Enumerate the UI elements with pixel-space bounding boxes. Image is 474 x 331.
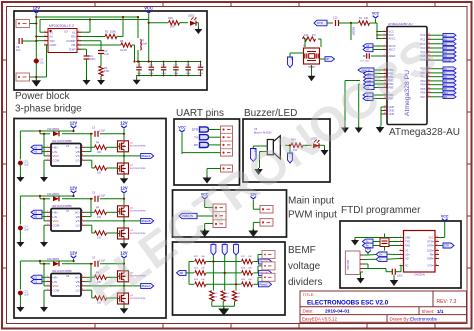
svg-text:10uF: 10uF xyxy=(24,294,30,297)
svg-text:FTDI programmer: FTDI programmer xyxy=(341,205,421,216)
svg-text:10n: 10n xyxy=(16,48,21,52)
svg-text:Electronoobs: Electronoobs xyxy=(410,316,438,321)
svg-text:10K: 10K xyxy=(201,267,205,269)
svg-text:U1: U1 xyxy=(66,144,70,148)
svg-text:D-: D- xyxy=(379,259,382,261)
svg-text:NC: NC xyxy=(405,265,409,268)
svg-text:VCC: VCC xyxy=(365,246,372,250)
svg-text:Sheet:: Sheet: xyxy=(422,309,435,314)
svg-text:10K: 10K xyxy=(248,256,252,258)
svg-text:22uF: 22uF xyxy=(161,73,167,75)
svg-text:VCC: VCC xyxy=(389,33,395,37)
svg-text:10K: 10K xyxy=(364,17,369,20)
svg-text:VCC: VCC xyxy=(428,237,433,240)
svg-text:C10: C10 xyxy=(333,17,338,20)
svg-text:PD7: PD7 xyxy=(420,95,426,99)
svg-text:DTR#: DTR# xyxy=(427,245,434,248)
svg-text:1M: 1M xyxy=(312,34,315,37)
svg-text:VCC: VCC xyxy=(372,12,380,16)
svg-text:PD6: PD6 xyxy=(420,91,426,95)
svg-text:Buzzer/LED: Buzzer/LED xyxy=(244,108,297,119)
svg-text:REV: 7.3: REV: 7.3 xyxy=(437,299,457,305)
svg-text:1N4148WS: 1N4148WS xyxy=(47,258,60,261)
svg-text:12V: 12V xyxy=(70,186,78,191)
svg-text:DTR: DTR xyxy=(444,245,449,248)
svg-text:1N4148WS: 1N4148WS xyxy=(47,193,60,196)
svg-text:10u: 10u xyxy=(40,61,45,65)
svg-text:DTR: DTR xyxy=(192,128,199,132)
svg-text:RESET: RESET xyxy=(444,60,452,62)
svg-text:IRLR7843TRPBF: IRLR7843TRPBF xyxy=(130,145,146,147)
svg-text:U3: U3 xyxy=(64,30,68,34)
svg-text:100: 100 xyxy=(97,151,102,154)
svg-text:CH330N: CH330N xyxy=(414,273,425,277)
svg-text:100n: 100n xyxy=(397,275,403,278)
svg-text:6.8K: 6.8K xyxy=(104,69,110,73)
svg-text:Power block: Power block xyxy=(15,91,70,102)
svg-text:TITLE:: TITLE: xyxy=(303,292,315,297)
svg-text:EXP: EXP xyxy=(69,47,75,51)
svg-text:22uF: 22uF xyxy=(198,73,204,75)
svg-text:PhaseA: PhaseA xyxy=(142,155,151,158)
svg-text:R2: R2 xyxy=(105,30,109,34)
svg-text:Date:: Date: xyxy=(303,309,314,314)
svg-text:10K: 10K xyxy=(236,297,240,299)
svg-text:R6: R6 xyxy=(120,39,124,43)
svg-text:IR2101STRPBF: IR2101STRPBF xyxy=(52,204,72,208)
svg-text:1/1: 1/1 xyxy=(437,309,444,314)
svg-text:44.2K: 44.2K xyxy=(120,48,127,52)
svg-text:TX: TX xyxy=(194,135,198,139)
svg-text:12V: 12V xyxy=(70,121,78,126)
svg-text:10uF: 10uF xyxy=(24,164,30,167)
svg-text:dividers: dividers xyxy=(288,277,322,288)
svg-text:GND: GND xyxy=(50,43,58,47)
svg-text:AVCC: AVCC xyxy=(389,37,396,41)
svg-text:22uF: 22uF xyxy=(186,73,192,75)
svg-text:10K: 10K xyxy=(225,297,229,299)
svg-text:2.2uF: 2.2uF xyxy=(99,195,106,198)
svg-text:3.3n: 3.3n xyxy=(104,52,110,56)
svg-text:MP2307DN-LF-Z: MP2307DN-LF-Z xyxy=(49,24,74,28)
svg-text:DSR#: DSR# xyxy=(427,258,434,261)
svg-text:2.2uF: 2.2uF xyxy=(99,130,106,133)
svg-text:VCC: VCC xyxy=(441,215,449,219)
svg-text:10K: 10K xyxy=(201,256,205,258)
svg-text:16MHz: 16MHz xyxy=(308,67,316,69)
svg-text:100: 100 xyxy=(97,216,102,219)
svg-text:10K: 10K xyxy=(201,279,205,281)
svg-text:COM: COM xyxy=(53,223,60,227)
svg-text:PWM input: PWM input xyxy=(288,210,337,221)
svg-text:ATMEGA328P-AU: ATMEGA328P-AU xyxy=(388,22,413,26)
svg-text:ATmega328-AU: ATmega328-AU xyxy=(389,127,460,138)
svg-text:1N4148WS: 1N4148WS xyxy=(47,128,60,131)
svg-text:22uF: 22uF xyxy=(137,73,143,75)
svg-text:100n: 100n xyxy=(90,57,96,61)
svg-text:2019-04-01: 2019-04-01 xyxy=(325,309,350,315)
svg-text:12V: 12V xyxy=(33,6,41,11)
svg-text:3-phase bridge: 3-phase bridge xyxy=(15,104,82,115)
svg-text:RESET: RESET xyxy=(352,27,356,36)
svg-text:voltage: voltage xyxy=(288,261,321,272)
svg-text:PhaseC: PhaseC xyxy=(260,284,269,286)
svg-text:DTR: DTR xyxy=(317,21,323,25)
svg-text:10uF: 10uF xyxy=(24,229,30,232)
svg-text:IRLR7843TRPBF: IRLR7843TRPBF xyxy=(130,210,146,212)
svg-text:10K: 10K xyxy=(248,267,252,269)
svg-text:10K: 10K xyxy=(213,297,217,299)
svg-text:U4: U4 xyxy=(66,274,70,278)
svg-text:10K: 10K xyxy=(248,279,252,281)
svg-text:RI#: RI# xyxy=(430,254,434,257)
svg-text:IR2101STRPBF: IR2101STRPBF xyxy=(52,269,72,273)
svg-text:Drawn By:: Drawn By: xyxy=(390,316,410,321)
svg-text:USB USB: USB USB xyxy=(348,259,350,270)
svg-text:LED2: LED2 xyxy=(188,14,195,18)
svg-text:IR2101STRPBF: IR2101STRPBF xyxy=(52,139,72,143)
svg-text:12V: 12V xyxy=(120,186,128,191)
svg-text:100k: 100k xyxy=(110,30,116,34)
svg-text:VCC: VCC xyxy=(178,126,186,130)
svg-text:UD+: UD+ xyxy=(405,254,410,257)
svg-text:RX: RX xyxy=(194,143,198,147)
svg-text:TXD: TXD xyxy=(405,241,410,244)
svg-text:XP: XP xyxy=(326,59,330,61)
svg-text:100: 100 xyxy=(97,172,102,175)
svg-text:R15: R15 xyxy=(304,34,309,37)
svg-text:BEMF: BEMF xyxy=(288,245,316,256)
svg-text:Main input: Main input xyxy=(288,196,334,207)
svg-text:IRLR7843TRPBF: IRLR7843TRPBF xyxy=(130,168,146,170)
svg-text:10uH: 10uH xyxy=(141,42,147,46)
svg-text:UART pins: UART pins xyxy=(176,108,224,119)
svg-text:RXD: RXD xyxy=(405,245,410,248)
svg-text:RTS#: RTS# xyxy=(427,241,434,244)
svg-text:12V: 12V xyxy=(120,121,128,126)
svg-text:EasyEDA V5.5.12: EasyEDA V5.5.12 xyxy=(302,316,337,321)
svg-text:GND: GND xyxy=(405,237,411,240)
svg-text:U7: U7 xyxy=(66,209,70,213)
svg-text:COM: COM xyxy=(53,158,60,162)
svg-text:12V: 12V xyxy=(70,251,78,256)
svg-text:100: 100 xyxy=(170,25,175,29)
svg-text:COM: COM xyxy=(53,288,60,292)
svg-text:VCC: VCC xyxy=(144,6,153,11)
svg-text:22uF: 22uF xyxy=(173,73,179,75)
svg-text:22uF: 22uF xyxy=(149,73,155,75)
svg-text:UD-: UD- xyxy=(405,258,409,261)
svg-text:DCD#: DCD# xyxy=(427,250,434,253)
svg-text:VCC: VCC xyxy=(389,30,395,34)
svg-text:ELECTRONOOBS ESC V2.0: ELECTRONOOBS ESC V2.0 xyxy=(307,299,389,306)
svg-text:100: 100 xyxy=(97,237,102,240)
svg-text:R20: R20 xyxy=(168,16,173,20)
svg-text:CTS#: CTS# xyxy=(427,265,434,268)
